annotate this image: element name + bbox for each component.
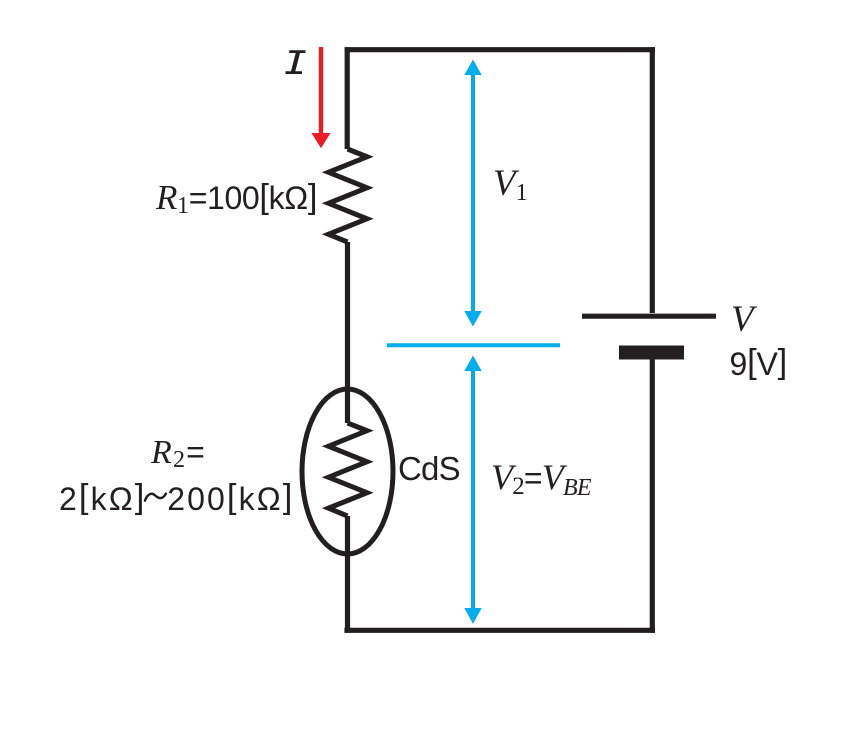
voltage arrow V2 (cyan double-headed) bbox=[464, 356, 481, 625]
label R2 value 2[kOhm]~200[kOhm] bbox=[145, 494, 166, 501]
svg-text:R2=: R2= bbox=[150, 434, 206, 473]
CdS photoresistor ellipse bbox=[302, 389, 393, 554]
svg-text:9[V]: 9[V] bbox=[730, 343, 788, 382]
resistor R2 zigzag (CdS) bbox=[329, 423, 368, 516]
wire: left vertical upper (top wire to R1) bbox=[345, 47, 350, 149]
wire: bottom horizontal bbox=[344, 628, 655, 633]
wire: right vertical upper (top wire to battery + plate) bbox=[650, 47, 655, 313]
svg-text:V: V bbox=[731, 299, 758, 340]
node line: mid node (cyan) bbox=[387, 343, 560, 347]
battery V: long thin positive plate bbox=[582, 314, 716, 319]
svg-text:2[kΩ]~200[kΩ]: 2[kΩ]~200[kΩ] bbox=[59, 478, 294, 517]
wire: left vertical lower (R2 to bottom wire) bbox=[345, 516, 350, 633]
battery V: short thick negative plate bbox=[619, 346, 684, 360]
wire: right vertical lower (battery - plate to bottom wire) bbox=[650, 359, 655, 633]
resistor R1 bbox=[329, 149, 368, 242]
svg-text:R1=100[kΩ]: R1=100[kΩ] bbox=[155, 178, 317, 219]
svg-text:V1: V1 bbox=[493, 163, 528, 206]
wire: top horizontal bbox=[345, 47, 655, 52]
voltage arrow V1 (cyan double-headed) bbox=[464, 60, 481, 327]
wire: left vertical middle (R1 to R2 zigzag) bbox=[345, 242, 350, 423]
label I bbox=[286, 50, 306, 74]
svg-text:CdS: CdS bbox=[398, 450, 460, 487]
svg-text:V2=VBE: V2=VBE bbox=[491, 457, 592, 501]
current arrow I (red) bbox=[312, 47, 331, 148]
